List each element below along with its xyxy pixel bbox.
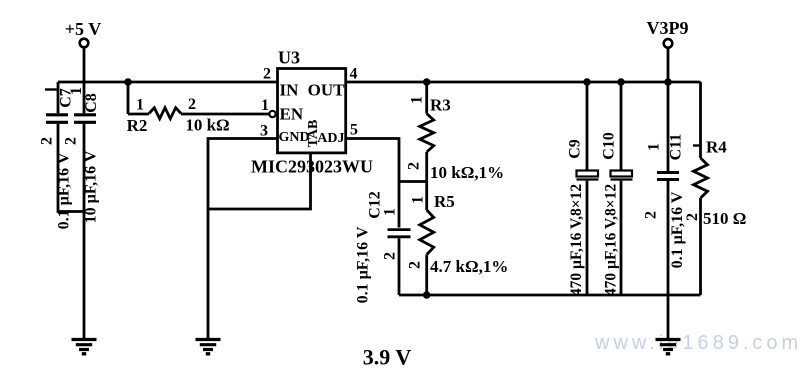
svg-text:R5: R5 (434, 192, 455, 211)
svg-text:2: 2 (684, 213, 701, 221)
svg-text:1: 1 (409, 96, 426, 104)
ground (middle, under U3) (196, 340, 221, 354)
svg-text:R2: R2 (127, 116, 148, 135)
node junction dot rail-C9 (583, 78, 591, 86)
wire left top rail (58, 81, 278, 84)
ground (left, under C7/C8) (72, 340, 97, 354)
ground (right) (656, 340, 681, 354)
node EN bubble (269, 111, 275, 117)
svg-text:510 Ω: 510 Ω (703, 209, 746, 228)
svg-text:1: 1 (136, 97, 144, 114)
svg-text:C11: C11 (668, 134, 685, 161)
wire ADJ jog to R3/R5 (399, 180, 427, 183)
svg-text:2: 2 (382, 252, 399, 260)
svg-text:2: 2 (407, 261, 424, 269)
svg-text:C8: C8 (83, 93, 100, 113)
svg-text:470 µF,16 V,8×12: 470 µF,16 V,8×12 (568, 184, 585, 296)
svg-text:2: 2 (39, 137, 56, 145)
svg-text:5: 5 (350, 122, 358, 139)
capacitor C8 (63, 82, 101, 340)
wire pin3 GND (208, 139, 278, 340)
svg-text:4: 4 (350, 66, 358, 83)
svg-text:R3: R3 (430, 96, 451, 115)
node junction dot rail-C10 (617, 78, 625, 86)
capacitor C11 (643, 82, 687, 295)
wire ground drop right (667, 295, 670, 340)
svg-text:R4: R4 (706, 138, 727, 157)
wire +5V drop (83, 48, 86, 83)
svg-text:+5 V: +5 V (65, 19, 101, 39)
node junction dot rail-C11 (664, 78, 672, 86)
regulator U3 MIC293023WU (251, 48, 373, 177)
svg-text:1: 1 (382, 208, 399, 216)
svg-text:2: 2 (406, 162, 423, 170)
wire bottom rail (399, 294, 701, 297)
svg-text:1: 1 (410, 196, 427, 204)
capacitor C9 (567, 82, 599, 296)
wire TAB pin (208, 153, 311, 209)
wire right top rail (346, 81, 701, 84)
svg-text:2: 2 (643, 211, 660, 219)
svg-text:10 kΩ: 10 kΩ (185, 116, 229, 135)
svg-text:MIC293023WU: MIC293023WU (251, 157, 373, 177)
svg-text:U3: U3 (278, 48, 300, 68)
svg-text:2: 2 (263, 66, 271, 83)
svg-text:www.ie1689.com: www.ie1689.com (594, 332, 800, 354)
svg-text:IN: IN (280, 81, 300, 100)
svg-text:V3P9: V3P9 (647, 18, 689, 38)
svg-text:0.1 µF,16 V: 0.1 µF,16 V (669, 191, 686, 268)
svg-text:ADJ: ADJ (317, 131, 344, 146)
resistor R2 (127, 82, 270, 135)
svg-text:0.1 µF,16 V: 0.1 µF,16 V (355, 226, 372, 303)
resistor R5 (407, 182, 509, 296)
svg-text:C9: C9 (567, 139, 584, 159)
svg-text:10 µF,16 V: 10 µF,16 V (83, 150, 100, 223)
svg-text:EN: EN (280, 104, 304, 123)
node junction dot rail-R3 (423, 78, 431, 86)
svg-text:3: 3 (260, 123, 268, 140)
svg-text:GND: GND (279, 130, 310, 145)
svg-text:1: 1 (646, 143, 663, 151)
node junction dot rail-R2 (124, 78, 132, 86)
capacitor C10 (601, 82, 633, 296)
svg-text:OUT: OUT (308, 81, 346, 100)
svg-text:0.1 µF,16 V: 0.1 µF,16 V (56, 152, 73, 229)
capacitor C7 (39, 82, 85, 229)
svg-text:1: 1 (261, 97, 269, 114)
resistor R4 (684, 82, 746, 295)
capacitor C12 (355, 191, 411, 303)
svg-text:10 kΩ,1%: 10 kΩ,1% (430, 163, 504, 182)
svg-text:470 µF,16 V,8×12: 470 µF,16 V,8×12 (603, 184, 620, 296)
wire pin5 ADJ (346, 139, 399, 228)
svg-text:2: 2 (63, 137, 80, 145)
svg-text:3.9 V: 3.9 V (363, 345, 412, 370)
node junction dot R5-bottom rail (423, 291, 431, 299)
svg-text:4.7 kΩ,1%: 4.7 kΩ,1% (430, 257, 508, 276)
resistor R3 (406, 82, 505, 182)
svg-text:C10: C10 (601, 132, 618, 160)
node V3P9 terminal (664, 39, 673, 48)
svg-text:2: 2 (188, 96, 196, 113)
node +5V terminal (80, 39, 89, 48)
svg-text:TAB: TAB (306, 120, 321, 148)
wire V3P9 drop (667, 48, 670, 82)
